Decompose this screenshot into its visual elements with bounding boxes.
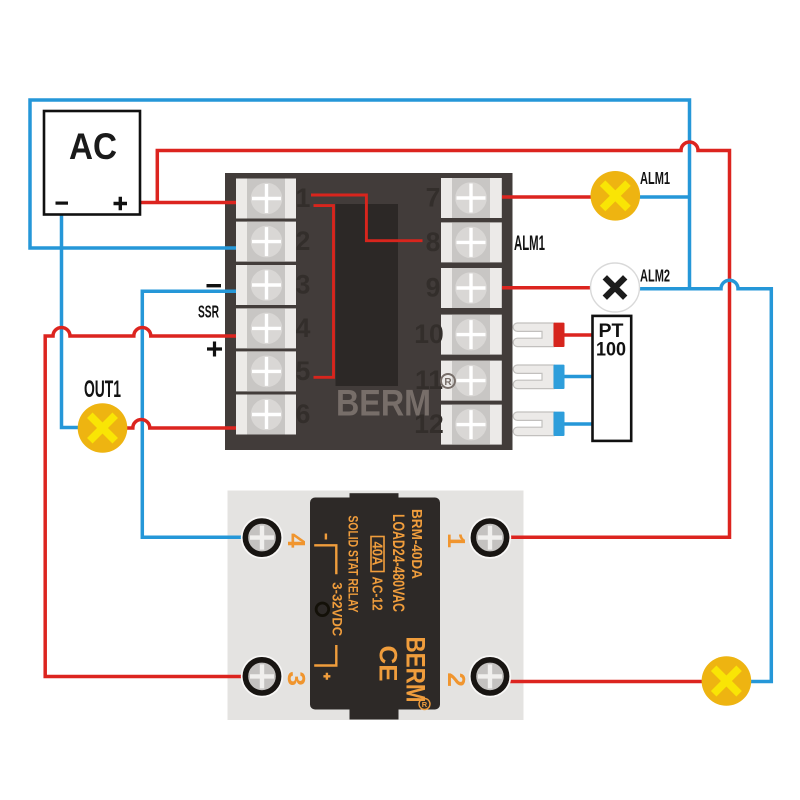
svg-text:R: R (444, 377, 452, 388)
svg-text:R: R (422, 700, 428, 709)
svg-text:9: 9 (426, 273, 441, 303)
svg-text:5: 5 (296, 356, 311, 386)
svg-text:8: 8 (426, 227, 441, 257)
svg-text:ALM1: ALM1 (640, 168, 670, 188)
svg-text:AC: AC (69, 126, 117, 167)
svg-text:4: 4 (296, 313, 311, 343)
svg-text:4: 4 (280, 533, 310, 549)
svg-text:CE: CE (374, 646, 402, 682)
svg-text:100: 100 (596, 339, 626, 361)
svg-text:3-32VDC: 3-32VDC (330, 582, 346, 636)
svg-text:2: 2 (440, 672, 470, 688)
svg-text:ALM1: ALM1 (514, 232, 545, 255)
svg-text:3: 3 (296, 270, 311, 300)
svg-text:10: 10 (414, 319, 443, 349)
svg-text:ALM2: ALM2 (640, 266, 670, 286)
svg-text:AC-12: AC-12 (369, 577, 385, 611)
svg-text:BERM: BERM (401, 637, 431, 703)
svg-text:BRM-40DA: BRM-40DA (408, 509, 425, 579)
svg-text:SOLID STAT RELAY: SOLID STAT RELAY (346, 516, 361, 613)
svg-text:SSR: SSR (198, 302, 219, 322)
svg-text:1: 1 (296, 183, 311, 213)
svg-text:LOAD24-480VAC: LOAD24-480VAC (389, 514, 408, 612)
svg-text:7: 7 (426, 183, 441, 213)
svg-text:2: 2 (296, 226, 311, 256)
svg-text:3: 3 (280, 671, 310, 687)
svg-text:6: 6 (296, 399, 311, 429)
svg-text:BERM: BERM (336, 382, 431, 424)
svg-text:1: 1 (440, 533, 470, 549)
svg-text:OUT1: OUT1 (84, 376, 121, 403)
